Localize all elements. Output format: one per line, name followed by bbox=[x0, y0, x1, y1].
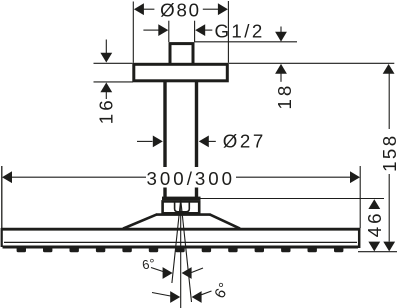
dimension 18 extension line top (connector top) bbox=[195, 41, 298, 43]
dimension 46/158 shared extension line bottom bbox=[358, 251, 397, 253]
dimension Ø80 left arrow bbox=[134, 3, 155, 15]
angle 6 upper leader right bbox=[192, 268, 204, 273]
cone left slope bbox=[123, 214, 157, 228]
shower head top bbox=[1, 228, 360, 231]
dimension 46 extension line top (nut level) bbox=[201, 198, 385, 200]
dimension G1/2 extension line right bbox=[194, 21, 196, 42]
svg-text:Ø80: Ø80 bbox=[160, 0, 201, 21]
dimension 18 up arrow bbox=[275, 64, 287, 82]
nozzle row bbox=[17, 247, 344, 253]
dimension Ø80 extension line right bbox=[227, 1, 229, 63]
dimension Ø27 right arrow bbox=[199, 136, 216, 148]
angle 6 lower left arrow bbox=[170, 291, 180, 303]
dimension 16 extension line bottom (plate bottom left) bbox=[94, 81, 134, 83]
svg-text:300/300: 300/300 bbox=[147, 168, 236, 189]
angle 6 upper leader left bbox=[151, 268, 163, 272]
angle 6 lower leader left bbox=[152, 293, 171, 297]
angle 6 lower leader right bbox=[202, 291, 212, 295]
dimension G1/2 extension line left bbox=[168, 21, 170, 42]
ceiling plate bbox=[134, 64, 228, 81]
svg-text:18: 18 bbox=[274, 83, 295, 110]
shower head bottom face bbox=[3, 246, 359, 249]
svg-text:46: 46 bbox=[364, 211, 385, 238]
svg-text:G1/2: G1/2 bbox=[215, 20, 265, 41]
dimension 16 extension line top (plate top left) bbox=[94, 62, 133, 64]
angle 6 lower right arrow bbox=[192, 291, 202, 303]
angle 6 upper left arrow bbox=[163, 267, 173, 279]
dimension 46 down arrow bbox=[368, 242, 380, 252]
dimension Ø80 extension line left bbox=[132, 2, 134, 63]
thread connector G1/2 body bbox=[170, 44, 193, 65]
dimension 300/300 left arrow bbox=[2, 171, 146, 183]
svg-text:6°: 6° bbox=[141, 255, 157, 272]
dimension 18/158 shared extension line (plate top) bbox=[229, 62, 394, 64]
spray line left bbox=[172, 200, 181, 284]
svg-text:158: 158 bbox=[379, 134, 400, 172]
shower head left edge bbox=[1, 228, 3, 247]
dimension 300/300 extension line left bbox=[1, 166, 3, 228]
dimension 16 down arrow bbox=[100, 40, 112, 63]
connector nut bbox=[163, 201, 200, 213]
pipe left wall bbox=[163, 82, 166, 197]
nut inner cylinder bbox=[175, 201, 190, 212]
svg-text:16: 16 bbox=[95, 97, 116, 124]
dimension G1/2 left arrow bbox=[143, 24, 168, 36]
dimension 300/300 right arrow bbox=[236, 171, 360, 183]
dimension G1/2 right arrow bbox=[195, 24, 212, 36]
cone top edge bbox=[156, 213, 211, 216]
dimension Ø27 left arrow bbox=[137, 136, 163, 148]
angle 6 upper right arrow bbox=[182, 267, 192, 279]
spray line right bbox=[181, 200, 192, 303]
shower head inner face line bbox=[4, 241, 357, 243]
dimension 18 down arrow bbox=[275, 27, 287, 42]
dimension Ø80 right arrow bbox=[203, 3, 228, 15]
dimension 46 up arrow bbox=[368, 199, 380, 209]
svg-text:Ø27: Ø27 bbox=[223, 130, 266, 151]
dimension 300/300 extension line right bbox=[359, 166, 361, 228]
shower head right edge bbox=[358, 228, 361, 248]
spray center axis bbox=[180, 200, 182, 308]
dimension 16 up arrow bbox=[100, 83, 112, 100]
pipe right wall bbox=[195, 82, 198, 197]
pipe flange bbox=[162, 197, 201, 201]
cone right slope bbox=[210, 214, 240, 228]
dimension 158 down arrow bbox=[383, 174, 395, 251]
dimension 158 up arrow bbox=[383, 64, 395, 129]
